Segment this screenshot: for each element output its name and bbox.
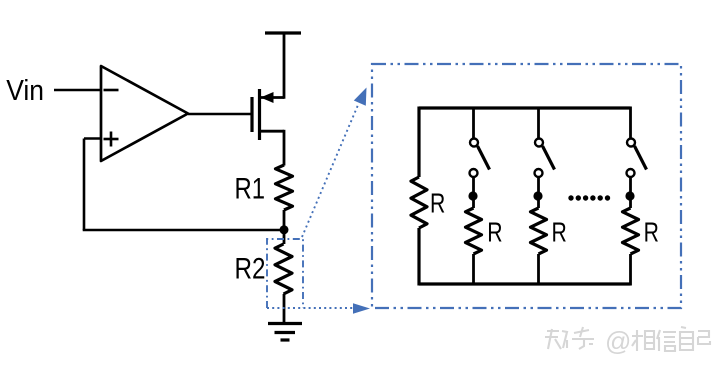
resistor R1 (276, 165, 293, 210)
transistor Q1 source lead (260, 130, 285, 166)
resistor R branch 1 (466, 208, 482, 254)
resistor R branch 2 (531, 208, 547, 254)
switch branch 3 stub (629, 107, 632, 139)
svg-text:R1: R1 (235, 173, 266, 206)
svg-text:R: R (430, 188, 445, 219)
wire bank left branch (417, 107, 420, 286)
op-amp minus sign (104, 89, 119, 92)
wire branch 1 dot to resistor (472, 196, 475, 208)
label R branch 3 (644, 217, 659, 248)
resistor R bank left (411, 177, 427, 228)
branch 3 junction dot (625, 191, 634, 200)
ellipsis dots (568, 195, 610, 200)
wire R2 to ground (283, 294, 286, 324)
op-amp plus sign (104, 132, 119, 147)
node A junction dot (280, 225, 289, 234)
svg-text:@: @ (605, 326, 631, 356)
op-amp U1 (101, 66, 188, 161)
wire bank top rail (419, 106, 631, 109)
supply rail bar (265, 31, 301, 34)
wire branch 2 resistor to bottom rail (537, 254, 540, 286)
wire branch 2 dot to resistor (537, 196, 540, 208)
resistor R branch 3 (623, 208, 639, 254)
resistor R2 (275, 244, 292, 294)
switch S3 blade (635, 146, 647, 170)
switch S2 blade (543, 146, 555, 170)
switch S1 pivot circle (470, 139, 478, 147)
watermark zhihu (545, 326, 710, 356)
annotation dotted callout line upper (302, 105, 358, 237)
branch 2 junction dot (533, 191, 542, 200)
wire branch 3 dot to resistor (629, 196, 632, 208)
wire branch 3 resistor to bottom rail (629, 254, 632, 286)
transistor Q1 drain lead with arrow (261, 33, 285, 103)
svg-text:Vin: Vin (6, 75, 44, 107)
switch S3 pivot circle (627, 139, 635, 147)
wire branch 3 contact to junction (629, 177, 632, 192)
switch branch 1 stub (472, 107, 475, 139)
wire branch 1 contact to junction (472, 177, 475, 192)
label R branch 2 (552, 217, 567, 248)
switch S2 pivot circle (535, 139, 543, 147)
switch S2 lower contact circle (535, 169, 543, 177)
switch S1 lower contact circle (470, 169, 478, 177)
annotation big dash-dot-dot box (372, 64, 681, 308)
svg-text:R: R (552, 217, 567, 248)
wire branch 2 contact to junction (537, 177, 540, 192)
label R1 (235, 173, 266, 206)
annotation dotted callout line lower (267, 307, 353, 309)
label R2 (235, 253, 266, 286)
switch S3 lower contact circle (627, 169, 635, 177)
branch 1 junction dot (468, 191, 477, 200)
wire Vin to op-amp inverting input (54, 89, 101, 92)
wire non-inverting input (84, 137, 101, 140)
annotation arrowhead upper (354, 88, 367, 106)
ground (268, 324, 302, 341)
label R bank left (430, 188, 445, 219)
svg-text:R: R (487, 217, 502, 248)
annotation small dash-dot box around R2 (267, 239, 303, 308)
svg-text:R2: R2 (235, 253, 266, 286)
switch S1 blade (478, 146, 490, 170)
wire op-amp output to gate (188, 113, 252, 116)
transistor Q1 channel bar (258, 89, 261, 140)
wire feedback vertical (83, 139, 86, 231)
transistor Q1 gate bar (250, 97, 253, 132)
label Vin (6, 75, 44, 107)
annotation arrowhead lower (353, 303, 370, 314)
wire bank bottom rail (419, 282, 631, 285)
switch branch 2 stub (537, 107, 540, 139)
wire branch 1 resistor to bottom rail (472, 254, 475, 286)
svg-text:R: R (644, 217, 659, 248)
wire feedback horizontal to node A (83, 229, 284, 232)
wire R1 to node A (283, 210, 286, 244)
label R branch 1 (487, 217, 502, 248)
